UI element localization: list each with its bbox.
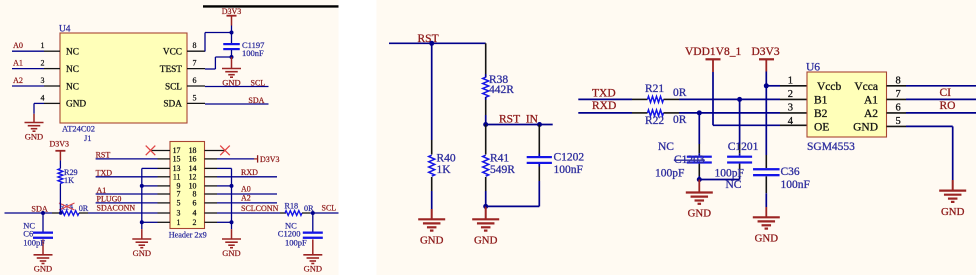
svg-text:R18: R18 — [285, 202, 299, 211]
svg-text:GND: GND — [474, 235, 498, 247]
svg-text:SDACONN: SDACONN — [97, 204, 136, 213]
svg-text:PLUG0: PLUG0 — [97, 194, 122, 203]
svg-text:J1: J1 — [84, 133, 92, 143]
svg-text:D3V3: D3V3 — [50, 140, 70, 149]
svg-text:R41: R41 — [490, 153, 509, 165]
svg-text:TEST: TEST — [160, 65, 183, 75]
svg-text:D3V3: D3V3 — [260, 155, 280, 164]
svg-text:GND: GND — [66, 100, 86, 110]
svg-text:GND: GND — [304, 264, 322, 274]
svg-text:R22: R22 — [645, 115, 664, 127]
svg-text:11: 11 — [173, 173, 181, 182]
svg-text:1K: 1K — [64, 176, 74, 185]
svg-text:Vcca: Vcca — [854, 81, 878, 93]
svg-text:6: 6 — [193, 76, 197, 85]
svg-text:3: 3 — [177, 209, 181, 218]
svg-text:R40: R40 — [437, 153, 456, 165]
svg-text:4: 4 — [41, 93, 45, 102]
svg-text:2: 2 — [41, 59, 45, 68]
svg-text:A2: A2 — [241, 193, 251, 202]
svg-text:SDA: SDA — [248, 96, 264, 105]
svg-text:RST IN: RST IN — [499, 114, 539, 126]
svg-text:5: 5 — [896, 116, 901, 127]
svg-text:6: 6 — [896, 103, 901, 114]
svg-text:1: 1 — [41, 41, 45, 50]
svg-text:4: 4 — [788, 116, 794, 127]
svg-text:A2: A2 — [864, 108, 878, 120]
svg-text:B1: B1 — [814, 94, 828, 106]
svg-text:16: 16 — [189, 155, 197, 164]
svg-text:SCL: SCL — [251, 78, 266, 87]
svg-text:SDA: SDA — [163, 100, 182, 110]
svg-text:0R: 0R — [304, 204, 314, 213]
svg-text:U4: U4 — [59, 24, 71, 34]
svg-text:RST: RST — [96, 150, 111, 159]
svg-text:SCL: SCL — [165, 82, 182, 92]
svg-text:SGM4553: SGM4553 — [807, 141, 855, 153]
svg-text:NC: NC — [726, 179, 742, 191]
svg-text:442R: 442R — [489, 84, 514, 96]
svg-text:A1: A1 — [13, 59, 23, 68]
svg-text:4: 4 — [193, 209, 197, 218]
svg-text:GND: GND — [755, 233, 779, 245]
svg-text:B2: B2 — [814, 108, 828, 120]
svg-text:GND: GND — [133, 248, 151, 258]
svg-text:1K: 1K — [437, 164, 452, 176]
svg-text:100pF: 100pF — [23, 237, 45, 247]
svg-text:1: 1 — [177, 218, 181, 227]
svg-text:TXD: TXD — [96, 168, 113, 177]
svg-text:A1: A1 — [864, 94, 878, 106]
svg-text:GND: GND — [941, 206, 965, 218]
svg-text:A0: A0 — [13, 41, 23, 50]
svg-text:GND: GND — [222, 77, 240, 87]
svg-text:SCLCONN: SCLCONN — [241, 204, 279, 213]
svg-text:A2: A2 — [13, 76, 23, 85]
svg-text:CI: CI — [940, 87, 952, 99]
svg-text:OE: OE — [814, 121, 829, 133]
svg-text:0R: 0R — [673, 87, 687, 99]
svg-text:VDD1V8_1: VDD1V8_1 — [685, 46, 741, 58]
svg-text:Vccb: Vccb — [817, 81, 842, 93]
svg-text:VCC: VCC — [163, 48, 182, 58]
svg-text:8: 8 — [193, 190, 197, 199]
svg-text:D3V3: D3V3 — [752, 46, 780, 58]
svg-text:TXD: TXD — [592, 87, 616, 99]
svg-text:GND: GND — [688, 208, 712, 220]
svg-text:NC: NC — [658, 141, 674, 153]
svg-text:C1202: C1202 — [554, 152, 585, 164]
svg-text:SCL: SCL — [322, 204, 337, 213]
svg-text:D3V3: D3V3 — [222, 7, 242, 16]
svg-text:100pF: 100pF — [655, 168, 684, 180]
svg-text:15: 15 — [173, 155, 181, 164]
svg-text:GND: GND — [853, 121, 878, 133]
svg-text:8: 8 — [896, 76, 901, 87]
svg-text:7: 7 — [177, 190, 181, 199]
svg-text:R21: R21 — [645, 83, 664, 95]
svg-text:5: 5 — [177, 199, 181, 208]
svg-text:6: 6 — [193, 199, 197, 208]
svg-text:100pF: 100pF — [715, 168, 744, 180]
svg-text:NC: NC — [66, 82, 79, 92]
svg-text:3: 3 — [788, 103, 793, 114]
svg-text:GND: GND — [420, 235, 444, 247]
svg-text:1: 1 — [788, 76, 793, 87]
svg-text:RXD: RXD — [592, 100, 616, 112]
svg-text:8: 8 — [193, 41, 197, 50]
svg-text:NC: NC — [66, 48, 79, 58]
svg-text:NC: NC — [66, 65, 79, 75]
svg-text:C1201: C1201 — [728, 141, 759, 153]
svg-text:2: 2 — [193, 218, 197, 227]
svg-text:AT24C02: AT24C02 — [62, 123, 95, 133]
svg-text:3: 3 — [41, 76, 45, 85]
svg-text:Header 2x9: Header 2x9 — [169, 230, 207, 239]
svg-text:100nF: 100nF — [781, 179, 810, 191]
svg-text:GND: GND — [222, 248, 240, 258]
svg-text:100nF: 100nF — [242, 48, 264, 58]
svg-text:12: 12 — [189, 173, 197, 182]
svg-text:RO: RO — [940, 100, 956, 112]
svg-text:2: 2 — [788, 89, 793, 100]
svg-text:U6: U6 — [806, 62, 820, 74]
svg-text:0R: 0R — [673, 114, 687, 126]
svg-text:7: 7 — [896, 89, 901, 100]
svg-text:C36: C36 — [781, 166, 800, 178]
svg-text:5: 5 — [193, 93, 197, 102]
svg-text:549R: 549R — [490, 164, 515, 176]
svg-text:GND: GND — [34, 264, 52, 274]
svg-text:7: 7 — [193, 59, 197, 68]
svg-text:0R: 0R — [79, 204, 89, 213]
svg-text:C1203: C1203 — [674, 154, 705, 166]
svg-text:100nF: 100nF — [554, 164, 583, 176]
svg-text:A0: A0 — [241, 185, 251, 194]
svg-text:RXD: RXD — [241, 168, 258, 177]
svg-text:SDA: SDA — [31, 204, 47, 213]
svg-text:100pF: 100pF — [285, 237, 307, 247]
svg-text:GND: GND — [25, 131, 43, 141]
